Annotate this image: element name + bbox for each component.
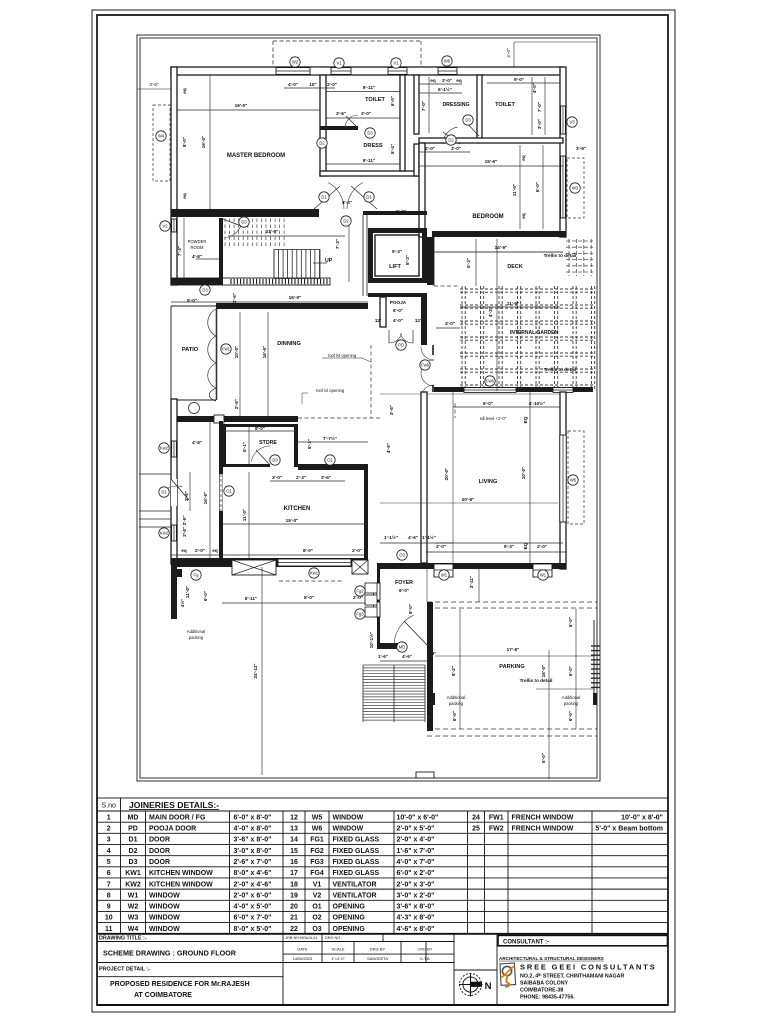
date scale values (293, 956, 430, 961)
svg-text:V3: V3 (569, 120, 575, 125)
svg-text:3'-6": 3'-6" (321, 475, 331, 480)
svg-text:CKD BY: CKD BY (418, 947, 433, 952)
kitchen window KW1 with X (232, 560, 276, 575)
terrace outline dashed top (273, 41, 421, 67)
svg-text:K.T.B: K.T.B (420, 956, 430, 961)
svg-text:INTERNAL GARDEN: INTERNAL GARDEN (510, 330, 559, 336)
svg-text:18: 18 (290, 881, 298, 888)
svg-text:6'-0": 6'-0" (396, 209, 406, 214)
north exterior wall (171, 67, 563, 75)
svg-text:D3: D3 (465, 118, 471, 123)
svg-text:16'-0": 16'-0" (541, 665, 546, 678)
svg-text:FOYER: FOYER (395, 580, 413, 586)
svg-text:FW1: FW1 (489, 814, 504, 821)
svg-text:14: 14 (290, 837, 298, 844)
svg-text:O1: O1 (226, 489, 232, 494)
svg-text:3'-0": 3'-0" (361, 111, 371, 116)
svg-text:11: 11 (105, 926, 113, 933)
svg-text:3'-0" x 8'-0": 3'-0" x 8'-0" (234, 848, 272, 855)
svg-text:eq: eq (456, 78, 462, 83)
svg-text:3'-0" x 2'-0": 3'-0" x 2'-0" (397, 892, 435, 899)
svg-text:20: 20 (290, 904, 298, 911)
svg-text:4'-6": 4'-6" (386, 443, 391, 453)
svg-text:TOILET: TOILET (495, 102, 515, 108)
kitchen block north wall (171, 416, 298, 422)
kitchen window KW2a in west wall (172, 441, 177, 457)
svg-text:20'-0": 20'-0" (444, 468, 449, 481)
svg-text:FRENCH WINDOW: FRENCH WINDOW (512, 826, 574, 833)
svg-text:24'-11": 24'-11" (253, 663, 258, 678)
roof opening dashed lines (298, 345, 455, 418)
svg-text:WINDOW: WINDOW (149, 926, 180, 933)
svg-text:2'-0": 2'-0" (436, 544, 446, 549)
svg-text:16'-0": 16'-0" (235, 103, 248, 108)
drawing border inner (140, 38, 597, 778)
svg-text:W1: W1 (540, 573, 547, 578)
svg-text:2'-0": 2'-0" (195, 548, 205, 553)
svg-text:6'-0": 6'-0" (390, 96, 395, 106)
svg-text:5'-3": 5'-3" (466, 258, 471, 268)
roof lvl opening label 1 (322, 353, 371, 362)
svg-text:FW2: FW2 (489, 826, 504, 833)
dim 4'-0 top right (514, 41, 597, 43)
svg-text:11'-0": 11'-0" (512, 184, 517, 196)
svg-text:D3: D3 (129, 859, 138, 866)
svg-text:PROPOSED RESIDENCE FOR Mr.RAJE: PROPOSED RESIDENCE FOR Mr.RAJESH (110, 981, 250, 988)
consultant logo (500, 963, 516, 987)
svg-text:8'-0": 8'-0" (408, 604, 413, 614)
svg-text:9'-11": 9'-11" (363, 85, 375, 90)
svg-text:WINDOW: WINDOW (333, 826, 364, 833)
bedroom west wall (419, 143, 425, 237)
fixed glass boxes west of foyer (365, 583, 377, 617)
svg-text:PROJECT DETAIL :-: PROJECT DETAIL :- (99, 966, 150, 972)
foyer south wall (377, 643, 398, 649)
svg-text:9": 9" (432, 651, 437, 656)
svg-text:packing: packing (564, 701, 579, 706)
svg-text:10'-0" x 8'-0": 10'-0" x 8'-0" (621, 814, 663, 821)
svg-text:21: 21 (290, 915, 298, 922)
svg-text:6'-0": 6'-0" (568, 617, 573, 627)
powder room door arc (223, 219, 241, 238)
svg-text:3'-6": 3'-6" (389, 405, 394, 415)
svg-text:6: 6 (107, 870, 111, 877)
svg-text:3'-6": 3'-6" (336, 111, 346, 116)
svg-text:12': 12' (375, 318, 381, 323)
corridor wall upper (414, 75, 419, 134)
lift corridor north wall (363, 211, 427, 215)
pooja west wall (380, 297, 386, 327)
svg-text:V2: V2 (162, 224, 168, 229)
svg-text:W2: W2 (128, 904, 139, 911)
parking west wall (427, 602, 433, 731)
svg-text:EQ: EQ (523, 416, 528, 423)
svg-text:O2: O2 (312, 915, 321, 922)
svg-text:2'-0": 2'-0" (352, 548, 362, 553)
svg-text:11'-0": 11'-0" (242, 509, 247, 521)
title block grid left and middle (97, 934, 497, 1005)
svg-text:2'-0": 2'-0" (537, 544, 547, 549)
svg-text:5: 5 (107, 859, 111, 866)
living west wall (421, 392, 427, 563)
svg-text:JOINERIES DETAILS:-: JOINERIES DETAILS:- (129, 800, 219, 810)
sill line under garden wall (380, 393, 560, 395)
svg-text:4'-0": 4'-0" (393, 318, 403, 323)
svg-text:W5: W5 (570, 478, 577, 483)
store door D3 arc (251, 446, 270, 465)
svg-text:15'-6": 15'-6" (485, 159, 498, 164)
svg-text:1: 1 (107, 814, 111, 821)
window W6 in north wall (438, 68, 457, 75)
svg-text:13: 13 (290, 826, 298, 833)
lift shaft walls (368, 228, 427, 283)
joineries table rows text (105, 814, 663, 933)
svg-text:6'-0": 6'-0" (568, 666, 573, 676)
svg-text:17'-8": 17'-8" (507, 647, 520, 652)
svg-text:5'-0" x Beam bottom: 5'-0" x Beam bottom (595, 826, 663, 833)
window W3 in east wall (561, 156, 566, 218)
title block outer lines (97, 934, 668, 1005)
svg-text:4'-8": 4'-8" (192, 254, 202, 259)
svg-text:W6: W6 (444, 59, 451, 64)
foyer main door arc (394, 615, 428, 646)
svg-text:D3: D3 (272, 458, 278, 463)
svg-text:4'-3" x 8'-0": 4'-3" x 8'-0" (397, 915, 435, 922)
svg-text:D2: D2 (448, 138, 454, 143)
svg-text:OPENING: OPENING (333, 915, 366, 922)
svg-text:17: 17 (290, 870, 298, 877)
svg-text:KITCHEN: KITCHEN (284, 506, 311, 512)
dim 3'-6 top left (137, 88, 171, 90)
living east wall (560, 392, 566, 569)
svg-text:ARCHITECTURAL & STRUCTURAL DES: ARCHITECTURAL & STRUCTURAL DESIGNERS (499, 956, 604, 961)
svg-text:O3: O3 (312, 926, 321, 933)
svg-text:Fg2: Fg2 (356, 589, 364, 594)
svg-text:DINNING: DINNING (277, 341, 301, 347)
svg-text:OPENING: OPENING (333, 904, 366, 911)
toilet1 door arc (345, 115, 358, 128)
foyer west wall with fixed glass (374, 569, 381, 647)
svg-text:LIFT: LIFT (389, 264, 401, 270)
balcony dashed outside W5 (568, 431, 584, 524)
trellis leader line (536, 688, 594, 690)
svg-text:1'-6" x 7'-0": 1'-6" x 7'-0" (397, 848, 435, 855)
window W2 in north wall (276, 68, 310, 75)
svg-text:Kw2: Kw2 (160, 531, 169, 536)
pooja north wall (368, 293, 427, 297)
svg-text:DATE: DATE (297, 947, 308, 952)
ventilator V3 in east wall (561, 106, 566, 134)
D1 double door arcs at master bedroom south (314, 183, 377, 210)
svg-text:POWDER: POWDER (188, 239, 207, 244)
svg-text:Kw2: Kw2 (160, 446, 169, 451)
svg-text:EQ: EQ (523, 542, 528, 549)
balcony dashed outside W4 west (153, 105, 170, 181)
svg-text:2'-0": 2'-0" (425, 146, 435, 151)
svg-text:FG4: FG4 (310, 870, 324, 877)
svg-text:LIVING: LIVING (479, 479, 498, 485)
svg-text:4'-6": 4'-6" (408, 535, 418, 540)
svg-text:FIXED GLASS: FIXED GLASS (333, 848, 380, 855)
svg-text:FG3: FG3 (310, 859, 324, 866)
svg-text:DOOR: DOOR (149, 837, 170, 844)
svg-text:D3: D3 (241, 220, 247, 225)
svg-text:5'-0": 5'-0" (541, 753, 546, 763)
svg-text:2'-0": 2'-0" (442, 78, 452, 83)
internal garden trellis grid (460, 286, 595, 391)
svg-text:O3: O3 (399, 553, 405, 558)
svg-text:PD: PD (398, 343, 404, 348)
svg-text:3'-0": 3'-0" (451, 146, 461, 151)
svg-text:4'-8": 4'-8" (192, 440, 202, 445)
svg-text:STORE: STORE (259, 440, 277, 446)
svg-text:2'-0" x 6'-0": 2'-0" x 6'-0" (234, 892, 272, 899)
svg-text:6'-1½": 6'-1½" (438, 86, 452, 92)
svg-text:6'-0": 6'-0" (399, 588, 409, 593)
svg-text:VENTILATOR: VENTILATOR (333, 892, 377, 899)
stair south wall with balusters (171, 278, 330, 285)
svg-text:4'-2": 4'-2" (488, 307, 493, 317)
svg-text:D1: D1 (366, 195, 372, 200)
kitchen north wall east segment (298, 464, 368, 470)
svg-text:FG2: FG2 (310, 848, 324, 855)
svg-text:Kw1: Kw1 (310, 571, 319, 576)
ventilator V2 in west wall (172, 219, 177, 232)
svg-text:WINDOW: WINDOW (149, 904, 180, 911)
svg-text:FRENCH WINDOW: FRENCH WINDOW (512, 814, 574, 821)
svg-text:6'-0": 6'-0" (483, 401, 493, 406)
svg-text:3'-9": 3'-9" (576, 146, 586, 151)
border notch bottom (416, 772, 434, 778)
pooja PD double door arcs (389, 330, 413, 343)
dressing south wall / bedroom north wall (419, 138, 563, 143)
svg-text:roof lvl opening: roof lvl opening (316, 388, 345, 393)
svg-text:W5: W5 (312, 814, 323, 821)
svg-text:4'-3": 4'-3" (342, 200, 352, 205)
svg-text:D1: D1 (321, 195, 327, 200)
window W1a with sill box (434, 564, 453, 577)
living west reference line (452, 392, 454, 564)
ventilator V1b in north wall (388, 68, 407, 75)
west exterior wall lower (171, 399, 177, 564)
parking 16-0 vertical line (548, 650, 550, 779)
svg-text:6'-0": 6'-0" (452, 711, 457, 721)
svg-text:14'-9": 14'-9" (495, 245, 508, 250)
svg-text:V2: V2 (313, 892, 322, 899)
svg-text:3'-0": 3'-0" (445, 321, 455, 326)
svg-text:SANGEETA: SANGEETA (367, 956, 388, 961)
svg-text:15: 15 (290, 848, 298, 855)
east exterior wall upper (560, 67, 566, 237)
svg-text:24: 24 (472, 814, 480, 821)
svg-text:Trellis to detail: Trellis to detail (520, 678, 553, 683)
svg-text:8: 8 (107, 892, 111, 899)
joineries table header text (102, 800, 220, 810)
svg-text:packing: packing (449, 701, 464, 706)
svg-text:11'-0": 11'-0" (185, 586, 190, 598)
svg-text:COIMBATORE-38: COIMBATORE-38 (520, 988, 563, 994)
svg-text:25: 25 (472, 826, 480, 833)
svg-text:5'-0": 5'-0" (187, 298, 197, 303)
dressing door D2 arc (443, 127, 460, 144)
svg-text:3'-11": 3'-11" (469, 576, 474, 588)
svg-text:Additional: Additional (562, 695, 580, 700)
master bedroom south wall (171, 209, 319, 217)
small annotation texts (187, 239, 580, 706)
patio curtain scallops Fw1 (208, 309, 217, 401)
svg-text:D3: D3 (367, 131, 373, 136)
svg-text:2: 2 (107, 826, 111, 833)
svg-text:KITCHEN WINDOW: KITCHEN WINDOW (149, 870, 213, 877)
svg-text:D2: D2 (343, 219, 349, 224)
svg-text:eq: eq (181, 548, 187, 553)
patio outline (171, 306, 216, 400)
svg-text:MD: MD (128, 814, 139, 821)
svg-text:7'-7½": 7'-7½" (323, 435, 337, 441)
svg-text:roof lvl opening: roof lvl opening (328, 353, 357, 358)
svg-text:KITCHEN WINDOW: KITCHEN WINDOW (149, 881, 213, 888)
svg-text:DECK: DECK (507, 264, 522, 270)
svg-text:V1: V1 (313, 881, 322, 888)
svg-text:8'-0" x 4'-6": 8'-0" x 4'-6" (234, 870, 272, 877)
svg-text:5'-1": 5'-1" (242, 442, 247, 452)
parking north dashed boundary (427, 602, 597, 608)
svg-text:22: 22 (290, 926, 298, 933)
left porch step lines (139, 474, 171, 527)
svg-text:POOJA DOOR: POOJA DOOR (149, 826, 196, 833)
svg-text:O1: O1 (327, 458, 333, 463)
Fw6 double swing arcs to garden (421, 345, 434, 398)
svg-text:eq: eq (521, 213, 526, 219)
door D1 opening in west wall (165, 479, 189, 506)
svg-text:sill level +2'-0": sill level +2'-0" (480, 416, 507, 421)
svg-text:W2: W2 (292, 60, 299, 65)
svg-text:eq: eq (521, 155, 526, 161)
svg-text:16: 16 (290, 859, 298, 866)
svg-text:SAIBABA COLONY: SAIBABA COLONY (520, 981, 569, 987)
svg-text:Fw6: Fw6 (421, 363, 430, 368)
svg-text:W3: W3 (572, 186, 579, 191)
kitchen south wall (171, 558, 368, 567)
external stair flights hatch (363, 665, 425, 722)
west wall stub below kitchen (171, 567, 182, 619)
svg-text:WINDOW: WINDOW (149, 915, 180, 922)
svg-text:N: N (485, 981, 492, 992)
svg-text:W3: W3 (128, 915, 139, 922)
drawing border outer (137, 35, 600, 781)
dimension lines group (171, 75, 566, 775)
proposed residence text (110, 981, 250, 999)
small fixed glass X box (352, 560, 368, 574)
svg-text:20'-6": 20'-6" (462, 497, 475, 502)
svg-text:7'-3": 7'-3" (335, 239, 340, 249)
dimension and room texts (177, 77, 586, 763)
store walls (222, 424, 298, 467)
svg-text:Fw6: Fw6 (486, 379, 495, 384)
svg-text:3'-6" x 8'-0": 3'-6" x 8'-0" (234, 837, 272, 844)
deck west wall (427, 237, 434, 285)
parking 17-8 dim line (435, 655, 594, 657)
toilet1 west part south wall (320, 126, 358, 130)
svg-text:BEDROOM: BEDROOM (472, 214, 503, 220)
svg-text:KW2: KW2 (125, 881, 141, 888)
corridor wall lower (414, 144, 419, 176)
svg-text:21'-0": 21'-0" (266, 229, 279, 234)
svg-text:2'-3": 2'-3" (296, 475, 306, 480)
svg-text:FG1: FG1 (310, 837, 324, 844)
svg-text:4'-10½": 4'-10½" (529, 400, 546, 406)
bedroom south wall (432, 231, 566, 237)
svg-text:D2: D2 (129, 848, 138, 855)
kitchen window KW2b in west wall (172, 525, 177, 541)
patio column circle (189, 403, 200, 414)
kitchen big window 8ft (278, 559, 351, 566)
svg-text:W4: W4 (128, 926, 139, 933)
svg-text:6'-0": 6'-0" (535, 182, 540, 192)
svg-text:10'-0" x 6'-0": 10'-0" x 6'-0" (397, 814, 439, 821)
svg-text:W1: W1 (128, 892, 139, 899)
powder room east wall (219, 218, 223, 278)
stair upper flight dashed treads (225, 219, 284, 248)
svg-text:DRAWING TITLE :-: DRAWING TITLE :- (99, 936, 147, 942)
svg-text:D3: D3 (202, 288, 208, 293)
svg-text:4'-6": 4'-6" (402, 654, 412, 659)
svg-text:Fg: Fg (194, 573, 200, 578)
svg-text:4'-0": 4'-0" (506, 48, 512, 58)
parking east trellis hatch (591, 620, 600, 700)
svg-text:3'-0": 3'-0" (537, 119, 542, 129)
additional packing tick right (593, 693, 597, 705)
svg-text:PD: PD (128, 826, 138, 833)
svg-text:MD: MD (399, 645, 406, 650)
deck south dashed boundary (434, 285, 460, 287)
svg-text:2'-0" x 5'-0": 2'-0" x 5'-0" (397, 826, 435, 833)
svg-text:CONSULTANT :-: CONSULTANT :- (503, 939, 549, 945)
svg-text:DOOR: DOOR (149, 859, 170, 866)
svg-text:1'-1½": 1'-1½" (384, 534, 398, 540)
svg-text:1'-1½": 1'-1½" (422, 534, 436, 540)
svg-text:10": 10" (309, 82, 316, 87)
svg-text:6'-0": 6'-0" (203, 591, 208, 601)
window opening in garden south wall b (553, 388, 573, 393)
svg-text:4'-0": 4'-0" (288, 82, 298, 87)
svg-text:2'-6" x 7'-0": 2'-6" x 7'-0" (234, 859, 272, 866)
svg-text:9'-3": 9'-3" (504, 544, 514, 549)
svg-text:2'-0" x 4'-6": 2'-0" x 4'-6" (234, 881, 272, 888)
svg-text:12: 12 (290, 814, 298, 821)
svg-text:4'-0": 4'-0" (532, 83, 537, 93)
job number cells (285, 936, 342, 940)
west exterior wall upper (171, 67, 177, 285)
svg-text:eq: eq (212, 548, 218, 553)
svg-text:12': 12' (415, 318, 421, 323)
svg-text:3'-6": 3'-6" (149, 82, 159, 88)
svg-text:9'-0": 9'-0" (514, 77, 524, 82)
svg-text:PARKING: PARKING (499, 664, 524, 670)
svg-text:5'-4": 5'-4" (390, 144, 395, 154)
toilet1 dress east wall (400, 75, 405, 171)
svg-text:16'-6": 16'-6" (262, 346, 267, 359)
svg-text:3'-6": 3'-6" (184, 491, 189, 501)
svg-text:S.no: S.no (102, 803, 117, 810)
svg-text:NO.2, 4ᵗʰ STREET, CHINTHAMANI: NO.2, 4ᵗʰ STREET, CHINTHAMANI NAGAR (520, 974, 625, 980)
inner sheet frame (97, 15, 668, 1005)
kitchen east boundary wall (364, 470, 368, 563)
dress south wall (320, 171, 419, 176)
window W5 in east wall (560, 435, 566, 522)
kitchen west dashed opening O1 (220, 474, 223, 511)
north compass symbol (459, 973, 483, 997)
